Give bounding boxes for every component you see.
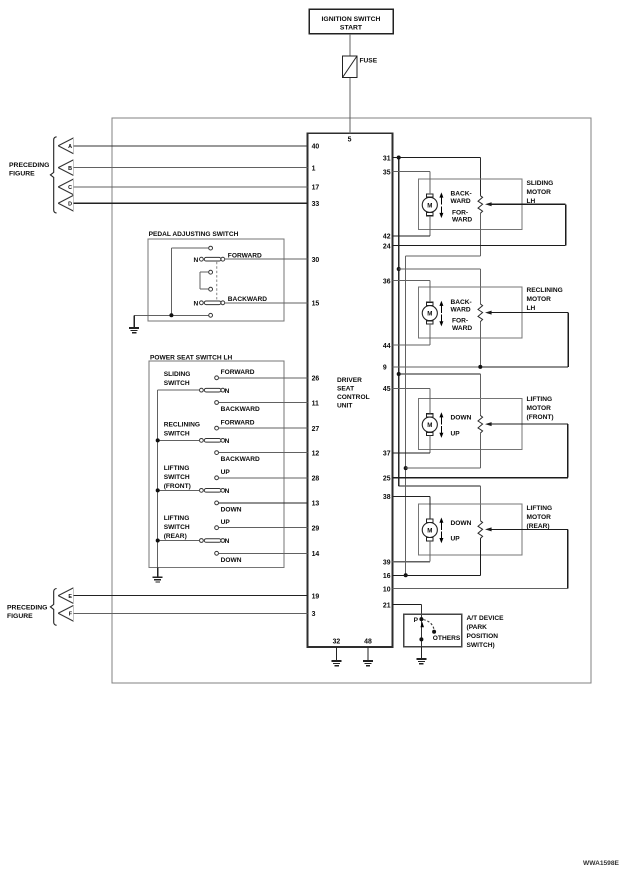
svg-text:(REAR): (REAR): [527, 523, 550, 530]
svg-text:30: 30: [312, 257, 320, 264]
svg-text:BACKWARD: BACKWARD: [228, 296, 267, 303]
svg-text:(REAR): (REAR): [164, 533, 187, 540]
svg-text:FOR-: FOR-: [452, 209, 468, 216]
svg-text:SWITCH: SWITCH: [164, 474, 190, 481]
svg-text:31: 31: [383, 155, 391, 162]
svg-text:(FRONT): (FRONT): [164, 483, 191, 490]
svg-text:35: 35: [383, 169, 391, 176]
svg-text:B: B: [68, 166, 72, 172]
svg-text:WARD: WARD: [452, 325, 472, 332]
svg-text:FORWARD: FORWARD: [228, 252, 262, 259]
svg-text:SWITCH: SWITCH: [164, 380, 190, 387]
svg-text:FIGURE: FIGURE: [9, 171, 35, 178]
svg-text:D: D: [68, 202, 72, 208]
svg-text:21: 21: [383, 602, 391, 609]
svg-text:LIFTING: LIFTING: [527, 505, 553, 512]
svg-text:LIFTING: LIFTING: [164, 465, 190, 472]
svg-text:RECLINING: RECLINING: [527, 287, 563, 294]
svg-text:N: N: [194, 301, 199, 308]
svg-text:BACK-: BACK-: [451, 299, 472, 306]
svg-text:C: C: [68, 185, 72, 191]
svg-text:37: 37: [383, 451, 391, 458]
svg-text:UP: UP: [221, 519, 231, 526]
svg-text:LH: LH: [527, 198, 536, 205]
svg-text:CONTROL: CONTROL: [337, 394, 370, 401]
svg-text:12: 12: [312, 450, 320, 457]
svg-text:WARD: WARD: [451, 306, 471, 313]
svg-text:BACK-: BACK-: [451, 191, 472, 198]
svg-text:SWITCH: SWITCH: [164, 430, 190, 437]
svg-text:PRECEDING: PRECEDING: [9, 162, 49, 169]
svg-text:N: N: [225, 488, 230, 495]
svg-text:9: 9: [383, 365, 387, 372]
svg-text:WWA1598E: WWA1598E: [583, 860, 620, 867]
svg-text:48: 48: [364, 638, 372, 645]
svg-text:MOTOR: MOTOR: [527, 405, 552, 412]
svg-text:RECLINING: RECLINING: [164, 421, 200, 428]
svg-text:19: 19: [312, 593, 320, 600]
svg-text:OTHERS: OTHERS: [433, 635, 461, 642]
svg-text:SWITCH: SWITCH: [164, 524, 190, 531]
svg-text:PRECEDING: PRECEDING: [7, 605, 47, 612]
svg-text:11: 11: [312, 400, 319, 407]
svg-text:WARD: WARD: [451, 198, 471, 205]
svg-text:M: M: [427, 528, 432, 535]
svg-text:17: 17: [312, 185, 320, 192]
svg-text:40: 40: [312, 144, 320, 151]
svg-text:N: N: [225, 438, 230, 445]
svg-text:39: 39: [383, 560, 391, 567]
svg-text:13: 13: [312, 501, 320, 508]
svg-text:A: A: [68, 144, 72, 150]
svg-text:SLIDING: SLIDING: [164, 371, 191, 378]
svg-text:WARD: WARD: [452, 217, 472, 224]
svg-text:15: 15: [312, 301, 320, 308]
svg-text:3: 3: [312, 611, 316, 618]
svg-text:N: N: [225, 388, 230, 395]
svg-text:P: P: [414, 617, 419, 624]
svg-text:(PARK: (PARK: [467, 624, 488, 631]
svg-text:MOTOR: MOTOR: [527, 296, 552, 303]
svg-text:UP: UP: [451, 536, 461, 543]
svg-text:E: E: [68, 594, 72, 600]
svg-text:DOWN: DOWN: [221, 507, 242, 514]
svg-text:M: M: [427, 202, 432, 209]
svg-text:SLIDING: SLIDING: [527, 180, 554, 187]
svg-text:BACKWARD: BACKWARD: [221, 406, 260, 413]
svg-text:DOWN: DOWN: [451, 415, 472, 422]
svg-text:FUSE: FUSE: [360, 58, 378, 65]
svg-text:SWITCH): SWITCH): [467, 642, 495, 649]
svg-text:14: 14: [312, 551, 320, 558]
svg-text:POSITION: POSITION: [467, 633, 499, 640]
svg-text:32: 32: [333, 638, 341, 645]
svg-text:28: 28: [312, 476, 320, 483]
svg-text:16: 16: [383, 573, 391, 580]
svg-text:BACKWARD: BACKWARD: [221, 456, 260, 463]
svg-text:FIGURE: FIGURE: [7, 613, 33, 620]
svg-text:A/T DEVICE: A/T DEVICE: [467, 615, 505, 622]
svg-text:36: 36: [383, 278, 391, 285]
svg-text:PEDAL ADJUSTING SWITCH: PEDAL ADJUSTING SWITCH: [149, 231, 239, 238]
svg-text:FOR-: FOR-: [452, 318, 468, 325]
svg-text:FORWARD: FORWARD: [221, 420, 255, 427]
svg-text:27: 27: [312, 426, 320, 433]
svg-text:26: 26: [312, 376, 320, 383]
svg-text:DOWN: DOWN: [451, 520, 472, 527]
svg-text:POWER SEAT SWITCH LH: POWER SEAT SWITCH LH: [150, 354, 233, 361]
svg-text:45: 45: [383, 386, 391, 393]
svg-text:24: 24: [383, 243, 391, 250]
svg-text:DRIVER: DRIVER: [337, 377, 362, 384]
svg-text:1: 1: [312, 165, 316, 172]
svg-text:10: 10: [383, 586, 391, 593]
svg-text:33: 33: [312, 201, 320, 208]
svg-text:N: N: [194, 257, 199, 264]
svg-text:UNIT: UNIT: [337, 403, 352, 410]
svg-text:FORWARD: FORWARD: [221, 369, 255, 376]
svg-text:(FRONT): (FRONT): [527, 414, 554, 421]
svg-text:UP: UP: [451, 430, 461, 437]
svg-text:42: 42: [383, 234, 391, 241]
svg-text:44: 44: [383, 343, 391, 350]
svg-text:5: 5: [348, 137, 352, 144]
svg-text:38: 38: [383, 494, 391, 501]
svg-text:M: M: [427, 422, 432, 429]
svg-text:MOTOR: MOTOR: [527, 514, 552, 521]
svg-text:25: 25: [383, 476, 391, 483]
svg-text:DOWN: DOWN: [221, 557, 242, 564]
svg-text:LH: LH: [527, 305, 536, 312]
svg-text:UP: UP: [221, 469, 231, 476]
svg-text:START: START: [340, 24, 363, 31]
svg-text:29: 29: [312, 526, 320, 533]
svg-text:N: N: [225, 538, 230, 545]
svg-text:LIFTING: LIFTING: [527, 396, 553, 403]
svg-text:SEAT: SEAT: [337, 386, 354, 393]
svg-text:MOTOR: MOTOR: [527, 189, 552, 196]
svg-text:M: M: [427, 311, 432, 318]
svg-text:IGNITION SWITCH: IGNITION SWITCH: [322, 16, 381, 23]
svg-text:LIFTING: LIFTING: [164, 515, 190, 522]
